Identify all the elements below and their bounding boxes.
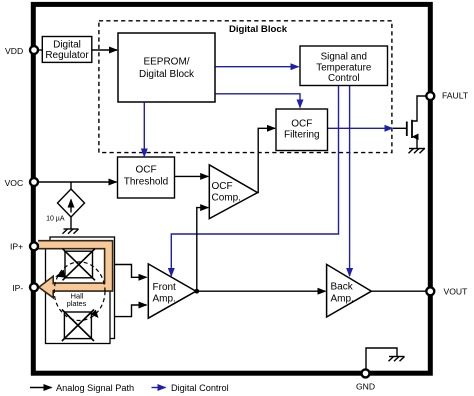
svg-text:Back: Back xyxy=(331,282,354,293)
block Digital Regulator xyxy=(42,37,92,63)
hall plate element upper xyxy=(63,249,96,281)
svg-text:GND: GND xyxy=(356,382,375,392)
rotation indicator dashed ellipse xyxy=(54,262,105,321)
svg-text:Filtering: Filtering xyxy=(284,130,320,141)
svg-text:Analog Signal Path: Analog Signal Path xyxy=(56,383,134,393)
wire blue Signal and Temperature Control to Front Amp xyxy=(171,86,338,276)
svg-text:EEPROM/: EEPROM/ xyxy=(143,57,189,68)
svg-text:OCF: OCF xyxy=(212,181,233,192)
legend digital control arrow xyxy=(152,387,166,389)
svg-text:Digital Block: Digital Block xyxy=(139,69,195,80)
svg-text:VDD: VDD xyxy=(5,46,23,56)
pin VOC xyxy=(30,178,38,186)
svg-text:OCF: OCF xyxy=(135,165,156,176)
hall plate element lower xyxy=(62,310,94,342)
hall plate front box xyxy=(46,242,111,344)
op-amp OCF Comp xyxy=(209,165,257,219)
block OCF Threshold xyxy=(118,157,175,198)
wire blue EEPROM to Signal and Temperature Control xyxy=(216,66,299,68)
wire hall plates to Front Amp upper input xyxy=(115,265,147,278)
wire Back Amp to VOUT xyxy=(371,290,426,292)
svg-text:VOC: VOC xyxy=(5,178,24,188)
wire blue Signal and Temperature Control to Back Amp xyxy=(349,86,351,276)
dashed Digital Block boundary xyxy=(99,21,392,153)
current path IP+ to IP- (orange) xyxy=(38,245,109,298)
svg-text:Digital: Digital xyxy=(53,39,81,50)
wire OCF Threshold to OCF Comp xyxy=(175,175,209,177)
pin VOUT xyxy=(426,287,434,295)
pin FAULT xyxy=(426,92,434,100)
wire Front Amp output feedback to OCF Comp xyxy=(197,208,208,292)
wire VOC to OCF Threshold xyxy=(39,181,117,183)
block OCF Filtering xyxy=(276,109,328,151)
ground at GND pin xyxy=(366,348,405,369)
svg-text:Digital Block: Digital Block xyxy=(229,24,288,35)
legend analog signal path arrow xyxy=(30,387,52,389)
op-amp Back Amp xyxy=(327,264,372,317)
ground below FAULT transistor xyxy=(409,149,426,154)
svg-text:Signal and: Signal and xyxy=(321,52,367,63)
wire blue EEPROM down to OCF Threshold xyxy=(143,103,145,157)
svg-text:FAULT: FAULT xyxy=(442,90,469,100)
op-amp Front Amp xyxy=(148,264,196,318)
wire blue OCF Filtering to FAULT transistor gate xyxy=(328,127,393,129)
svg-text:plates: plates xyxy=(67,299,87,308)
svg-text:IP+: IP+ xyxy=(10,242,23,252)
ground below current source xyxy=(63,229,79,234)
hall plate back box xyxy=(50,237,115,339)
pin IP+ xyxy=(30,242,38,250)
pin GND xyxy=(362,369,370,377)
outer IC border xyxy=(33,4,430,373)
current source I1 10uA xyxy=(58,182,85,229)
wire blue EEPROM to OCF Filtering xyxy=(216,94,301,108)
wire Front Amp to Back Amp xyxy=(197,290,326,292)
transistor Q1 FAULT open drain xyxy=(393,96,426,149)
svg-text:10 µA: 10 µA xyxy=(46,216,65,223)
wire Digital Regulator to EEPROM xyxy=(92,49,117,51)
node front amp output xyxy=(194,289,199,294)
svg-text:Control: Control xyxy=(328,73,360,84)
block Signal and Temperature Control xyxy=(300,46,388,86)
wire VDD to Digital Regulator xyxy=(39,49,44,51)
svg-text:OCF: OCF xyxy=(291,119,312,130)
svg-text:IP-: IP- xyxy=(12,283,23,293)
svg-text:Temperature: Temperature xyxy=(316,62,372,73)
svg-text:Comp.: Comp. xyxy=(212,192,241,203)
svg-text:Digital Control: Digital Control xyxy=(171,383,229,393)
pin IP- xyxy=(30,283,38,291)
wire hall plates to Front Amp lower input xyxy=(115,305,147,317)
pin VDD xyxy=(30,46,38,54)
block EEPROM / Digital Block xyxy=(118,33,215,102)
svg-text:Amp.: Amp. xyxy=(331,294,354,305)
wire OCF Comp output to OCF Filtering xyxy=(258,128,276,192)
svg-text:Amp.: Amp. xyxy=(153,294,176,305)
svg-text:Threshold: Threshold xyxy=(124,176,168,187)
svg-text:Regulator: Regulator xyxy=(45,50,89,61)
svg-text:Front: Front xyxy=(153,282,177,293)
svg-text:VOUT: VOUT xyxy=(444,287,469,297)
